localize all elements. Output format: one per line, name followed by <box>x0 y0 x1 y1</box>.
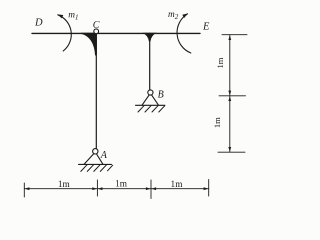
pin support A: legs of triangle <box>84 152 103 164</box>
beam DE <box>32 32 200 34</box>
right dimension tick middle <box>219 95 246 97</box>
rigid joint fillet at top of column B <box>142 33 156 42</box>
bottom dimension tick 3 <box>150 180 152 199</box>
pin support B: hatching <box>138 106 165 112</box>
pin support A: hatching <box>81 165 113 172</box>
pin support B: hinge circle <box>148 90 153 95</box>
svg-text:C: C <box>93 20 100 31</box>
moment m1 arc <box>58 15 72 51</box>
svg-text:1m: 1m <box>171 180 184 190</box>
column B upper <box>149 33 151 90</box>
right dimension line: vertical <box>229 35 231 152</box>
bottom dimension tick 2 <box>96 180 98 196</box>
moment m2 arc <box>177 14 191 53</box>
bottom dimension arrows <box>25 187 30 190</box>
svg-text:1m: 1m <box>212 117 222 128</box>
svg-text:E: E <box>202 22 210 33</box>
pin support A: ground line <box>79 163 112 165</box>
pin support A: hinge circle <box>93 149 98 154</box>
svg-text:1m: 1m <box>215 57 225 68</box>
bottom dimension line: horizontal <box>24 188 208 190</box>
right dimension tick bottom <box>218 151 245 153</box>
moment m1 arrowhead <box>57 14 63 18</box>
pin support B: legs of triangle <box>142 93 158 105</box>
svg-text:1m: 1m <box>58 180 71 190</box>
svg-text:1m: 1m <box>115 179 128 189</box>
bottom dimension tick 1 <box>23 183 25 197</box>
pin support B: ground line <box>136 104 165 106</box>
moment m2 arrowhead <box>182 13 188 18</box>
right dimension tick top <box>222 34 247 36</box>
column CA <box>95 33 97 148</box>
bottom dimension tick 4 <box>208 180 210 197</box>
hinge circle at C <box>94 29 99 34</box>
svg-text:B: B <box>158 89 164 100</box>
right dimension arrows <box>228 35 231 40</box>
rigid joint fillet at C <box>81 33 97 56</box>
svg-text:D: D <box>34 17 43 28</box>
svg-text:A: A <box>100 150 108 161</box>
